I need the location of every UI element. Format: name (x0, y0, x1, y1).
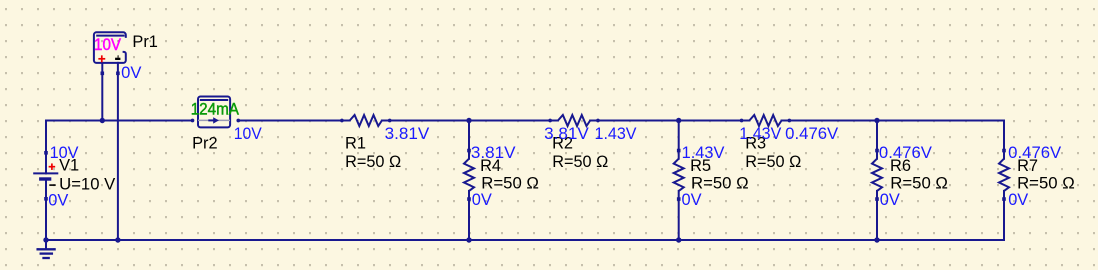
svg-text:R4: R4 (480, 157, 501, 175)
svg-text:124mA: 124mA (191, 100, 239, 118)
svg-text:1.43V: 1.43V (739, 125, 781, 143)
svg-text:R=50 Ω: R=50 Ω (1017, 175, 1075, 193)
svg-text:R7: R7 (1017, 157, 1038, 175)
svg-text:0V: 0V (48, 192, 68, 210)
svg-text:Pr1: Pr1 (132, 33, 158, 51)
svg-text:0V: 0V (880, 191, 900, 209)
svg-text:0V: 0V (1008, 191, 1028, 209)
svg-text:10V: 10V (234, 125, 262, 143)
svg-text:0V: 0V (682, 191, 702, 209)
svg-text:0.476V: 0.476V (785, 125, 838, 143)
svg-text:1.43V: 1.43V (595, 125, 637, 143)
svg-text:R=50 Ω: R=50 Ω (890, 175, 948, 193)
svg-text:R=50 Ω: R=50 Ω (552, 153, 608, 171)
svg-text:R=50 Ω: R=50 Ω (345, 153, 401, 171)
svg-text:3.81V: 3.81V (544, 125, 589, 143)
svg-text:0V: 0V (121, 64, 141, 82)
svg-text:R=50 Ω: R=50 Ω (481, 175, 539, 193)
svg-text:10V: 10V (50, 144, 79, 162)
svg-text:3.81V: 3.81V (385, 125, 430, 143)
svg-text:R6: R6 (890, 157, 911, 175)
svg-text:R=50 Ω: R=50 Ω (745, 153, 801, 171)
svg-text:Pr2: Pr2 (192, 134, 218, 152)
svg-text:R1: R1 (345, 135, 366, 153)
svg-text:10V: 10V (94, 36, 121, 54)
svg-text:R=50 Ω: R=50 Ω (691, 175, 749, 193)
svg-text:0V: 0V (472, 191, 492, 209)
svg-text:R5: R5 (690, 157, 711, 175)
